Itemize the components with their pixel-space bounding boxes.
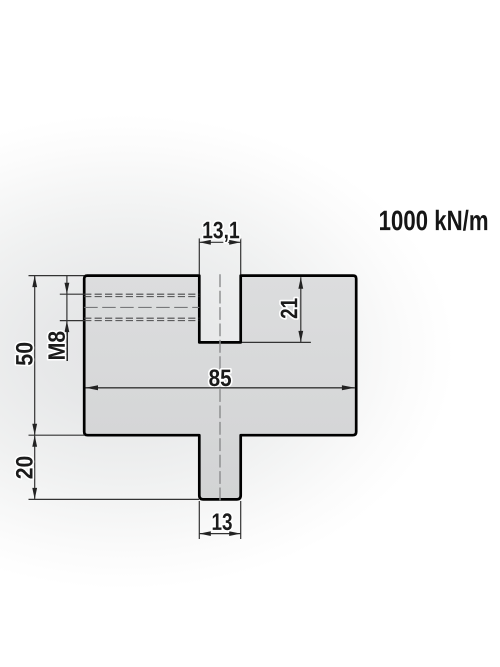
text 50 [16,343,33,365]
dimension 13 : tang width [199,501,240,539]
text 21 [281,298,298,318]
text 13 [213,513,232,530]
text 20 [16,457,33,479]
dimension 13,1 : slot width [199,238,240,274]
text M8 [48,332,65,359]
text 1000 kN/m [380,210,487,231]
dimension 50 : body height [29,276,85,436]
part vertical centerline [219,274,221,503]
dimension 21 : slot depth [242,277,311,342]
die body: 85x50 block with 13.1 top slot and 13x20 bottom tang [84,276,356,500]
text 85 [209,369,231,386]
M8 thread hole dashed lines [84,294,199,320]
M8 position dimension [60,276,84,329]
dimension 20 : tang height [29,435,200,499]
M8 label underline [66,331,68,361]
M8 hole centerline [84,306,199,308]
text 13,1 [203,222,239,242]
